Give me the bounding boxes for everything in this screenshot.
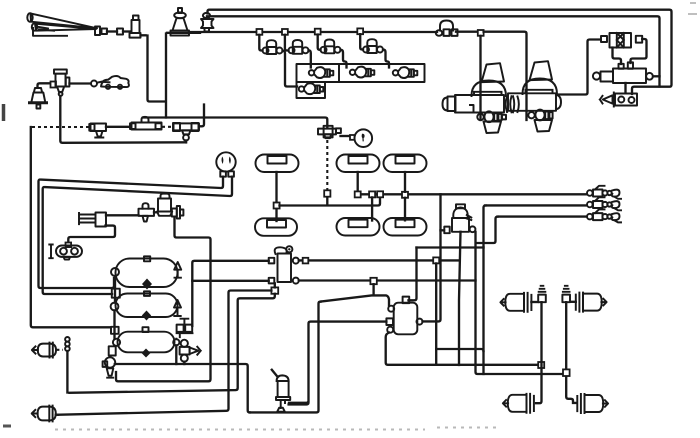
junction rear feed x566 bbox=[563, 369, 570, 376]
air filter unit bbox=[601, 33, 642, 48]
junction J2 bbox=[282, 29, 288, 35]
wire brake valve drain: long left drain loop bbox=[116, 219, 211, 382]
wheel shutoff valve V3 bbox=[318, 35, 341, 54]
main intake line bbox=[167, 32, 200, 34]
brake control valve (dual) bbox=[269, 246, 299, 283]
wire bottle to vertical bbox=[141, 34, 146, 36]
wire cross link y247 bbox=[417, 246, 484, 248]
chain square above res3 bbox=[111, 327, 119, 334]
reservoir 2 bbox=[111, 291, 181, 320]
wire distributor bottom-left to rear line bbox=[386, 333, 539, 365]
horn bracket bbox=[33, 28, 67, 36]
tyre T6 bbox=[384, 218, 427, 236]
gauge fitting bbox=[350, 135, 355, 140]
wire tyre valve right port down x476 to rear feed bbox=[476, 232, 565, 374]
wire coupling1 branch x440 bbox=[423, 194, 441, 321]
wire tee to hump valve bbox=[106, 126, 130, 128]
rear bottom-left brake chamber bbox=[503, 394, 534, 413]
wire port to junction bbox=[274, 283, 276, 287]
hose plug A3 bbox=[393, 67, 418, 78]
rear top-right brake chamber bbox=[570, 293, 607, 312]
wire reservoir drain main y364 bbox=[115, 364, 250, 412]
wire valve top-right service line y260 bbox=[299, 259, 458, 261]
wire junction x373 down to distributor bbox=[372, 284, 374, 295]
drain cock bbox=[105, 357, 115, 367]
reservoir port block bbox=[112, 289, 120, 298]
wire rear right riser x566 bbox=[566, 302, 576, 403]
wire V4 to plug A3 bbox=[383, 50, 389, 68]
horn top fitting bbox=[66, 243, 72, 248]
front-right brake chamber bbox=[32, 406, 58, 422]
reservoir 1 bbox=[111, 256, 181, 289]
wire branch to tyre valve left port bbox=[441, 229, 445, 231]
double pressure gauge bbox=[216, 152, 235, 176]
junction J5 bbox=[478, 30, 484, 36]
compressor 2 bbox=[508, 61, 561, 131]
junction T2 bbox=[355, 191, 361, 197]
trailer coupling line 1 bbox=[358, 193, 587, 195]
wire T5 feed bbox=[371, 197, 373, 220]
junction T5 bbox=[369, 191, 375, 197]
wire cock to pressure gauge bbox=[341, 135, 351, 137]
tyre T1 bbox=[256, 155, 299, 173]
wire junction drop x436 bbox=[435, 263, 437, 364]
engine pump unit bbox=[201, 13, 214, 32]
rear bottom-right brake chamber bbox=[577, 394, 608, 413]
front-left brake chamber bbox=[32, 343, 63, 358]
hose plug A1 bbox=[309, 67, 334, 78]
drain fitting below res3 bbox=[109, 346, 116, 355]
wire distributor mid-left long line bbox=[289, 322, 386, 403]
inline square fitting bbox=[117, 29, 123, 35]
wiper bell signal bbox=[30, 88, 47, 109]
page scan artifact bbox=[55, 428, 497, 430]
wire V1 to plug B bbox=[283, 51, 298, 87]
heater comb bbox=[79, 213, 106, 227]
wire V2 to plug A1 bbox=[309, 51, 311, 68]
tyre T3 bbox=[384, 155, 427, 173]
wire T2 drop bbox=[357, 172, 359, 192]
trailer coupling head 2 bbox=[587, 197, 621, 210]
compressor 1 bbox=[443, 63, 507, 133]
res3 right riser fittings bbox=[176, 319, 192, 340]
inline canister valve on intake line bbox=[436, 21, 458, 36]
wire front axle branch 2 bbox=[70, 294, 275, 393]
junction J3 bbox=[315, 29, 321, 35]
junction rear line x541 bbox=[538, 362, 544, 368]
wire to shutoff bottle bbox=[123, 30, 130, 32]
wire cylinder right port riser bbox=[289, 402, 309, 404]
junction below valve bbox=[271, 287, 278, 293]
wire top line 1 bbox=[208, 10, 672, 94]
air distributor valve bbox=[386, 297, 422, 335]
junction J4 bbox=[357, 28, 363, 34]
wire V3 to plug A2 bbox=[341, 50, 347, 68]
wheel shutoff valve V2 bbox=[285, 35, 309, 54]
tee vent valve bbox=[89, 124, 106, 138]
wire tee2 to hand brake valve bbox=[154, 211, 158, 213]
wire left drop to reservoir bank bbox=[31, 127, 110, 327]
hose plug B bbox=[299, 83, 324, 94]
tyre hose connector box B bbox=[297, 82, 326, 98]
brake safety valve at res3 bbox=[180, 340, 201, 364]
wire gauge line 1 to reservoir 1 bbox=[39, 177, 224, 288]
safety valve assembly bbox=[600, 93, 637, 107]
wire valve bottom-right trailer line y281 bbox=[299, 279, 476, 281]
wire tyre valve bottom drop x459 bbox=[459, 232, 461, 365]
wire top line 2 bbox=[207, 16, 660, 86]
wire valve feed left y281 bbox=[192, 280, 268, 282]
junction J1 bbox=[257, 29, 263, 35]
inflation line square bbox=[324, 190, 330, 196]
reservoir 3 bbox=[113, 327, 179, 357]
wheel shutoff valve V1 bbox=[259, 35, 282, 54]
wire reservoir port chain bbox=[113, 276, 116, 339]
wire pump stub x204 bbox=[199, 105, 204, 127]
wire T1 drop to T4 bbox=[275, 172, 277, 221]
trailer coupling line 2 bbox=[485, 204, 587, 206]
wire coupling2 corner down x483 bbox=[484, 205, 486, 245]
wire T3 drop and T6 feed bbox=[404, 172, 406, 220]
wire filter right loop to governor bbox=[631, 39, 647, 63]
wire lower manifold bbox=[280, 197, 381, 205]
tyre T4 bbox=[255, 218, 297, 236]
wire comb to tee2 bbox=[106, 214, 139, 216]
wire coupling3 corner down x495 bbox=[476, 217, 498, 243]
air cleaner funnel bbox=[171, 8, 190, 36]
rear top-right chamber valve bbox=[562, 286, 570, 302]
wire J5 down into compressor 1 bbox=[479, 36, 481, 120]
air horn bbox=[27, 13, 97, 31]
flexible hose front-left bbox=[65, 337, 70, 393]
tee fitting mid bbox=[173, 123, 199, 142]
tyre T2 bbox=[337, 155, 380, 173]
wire horn feed staircase bbox=[68, 226, 115, 243]
inline square on y260 bbox=[303, 258, 309, 264]
trailer coupling head 1 bbox=[587, 186, 621, 199]
tee valve 2 bbox=[139, 203, 155, 221]
inflation dashed control line bbox=[326, 140, 328, 190]
dashed vent line left bbox=[32, 126, 89, 128]
wire intake right end into compressor 2 bbox=[484, 32, 527, 120]
compressor intercooler bellows bbox=[506, 96, 519, 112]
drain funnel bbox=[107, 368, 114, 377]
rear top-left brake chamber bbox=[500, 293, 538, 312]
wire bell to cylinder valve bbox=[38, 83, 51, 87]
rear top-left chamber valve bbox=[538, 286, 546, 302]
washer pump cylinder bbox=[54, 70, 69, 96]
wire valve feed left y261 bbox=[192, 261, 268, 326]
tyre pressure control valve bbox=[444, 204, 475, 233]
junction y281 x373 bbox=[370, 278, 376, 284]
wire trailer y281 drop x483 bbox=[482, 248, 484, 352]
washer hose fitting bbox=[91, 81, 97, 87]
unloader governor valve bbox=[593, 62, 653, 83]
wire vertical x148 down bbox=[148, 36, 166, 102]
tyre hose connector box A bbox=[297, 64, 425, 82]
wire cylinder loop riser x319 bbox=[321, 295, 389, 305]
horn shutoff bottle valve bbox=[130, 16, 141, 38]
trailer coupling line 3 bbox=[498, 215, 587, 217]
wire front axle branch 1 bbox=[56, 291, 271, 415]
wire cylinder to washer hose bbox=[70, 82, 91, 84]
junction T1 manifold bbox=[274, 203, 280, 209]
wire vertical x166 air-cleaner branch bbox=[165, 34, 167, 118]
tyre pressure gauge bbox=[355, 129, 373, 147]
wire gauge line 2 to reservoir port block bbox=[43, 177, 232, 294]
box A divider bbox=[338, 64, 340, 82]
wire compressor discharge to filter bbox=[558, 40, 601, 95]
wire tyre control header bbox=[143, 118, 327, 129]
tyre T5 bbox=[337, 218, 380, 236]
wire drain bottom run y412 bbox=[250, 302, 321, 413]
washer jet silhouette bbox=[101, 76, 129, 87]
wire filter bottom to governor bbox=[613, 48, 622, 65]
hand brake valve bbox=[157, 194, 183, 219]
hose plug A2 bbox=[350, 67, 375, 78]
wire governor to right trunk bbox=[653, 75, 660, 77]
wire x416 drop to distribution valve top bbox=[409, 248, 417, 301]
twin electric horn bbox=[49, 245, 82, 260]
wire rear feed y349 step bbox=[436, 349, 483, 374]
wire governor down to safety valve bbox=[624, 83, 626, 93]
tyre pressure hump valve bbox=[130, 117, 162, 130]
horn outlet fitting bbox=[95, 27, 100, 36]
wheel shutoff valve V4 bbox=[360, 34, 383, 53]
tyre inflation cock bbox=[318, 126, 341, 138]
trailer coupling head 3 bbox=[587, 209, 621, 222]
junction B manifold bbox=[377, 191, 383, 197]
junction y260 x436 bbox=[433, 257, 439, 263]
wire horn to filter square bbox=[107, 30, 117, 32]
junction T3 bbox=[402, 192, 408, 198]
wire cylinder drain down and right bbox=[60, 96, 186, 143]
hand cylinder control bbox=[272, 370, 290, 412]
wire inflation stub bbox=[326, 197, 328, 206]
dash hump to tee bbox=[162, 126, 172, 128]
wire rear left riser x541 bbox=[536, 302, 542, 403]
wire res3 port stub bbox=[175, 345, 177, 364]
